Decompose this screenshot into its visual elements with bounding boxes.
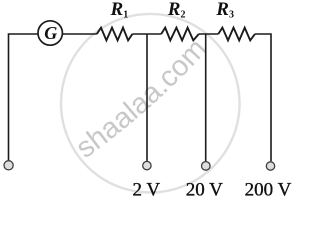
svg-text:20 V: 20 V [186, 179, 223, 200]
svg-text:shaalaa.com: shaalaa.com [70, 33, 213, 165]
svg-text:R1: R1 [110, 0, 129, 21]
svg-text:G: G [44, 23, 57, 43]
svg-text:R2: R2 [167, 0, 186, 21]
svg-text:R3: R3 [215, 0, 234, 21]
svg-text:2 V: 2 V [132, 179, 160, 200]
svg-text:200 V: 200 V [245, 179, 292, 200]
